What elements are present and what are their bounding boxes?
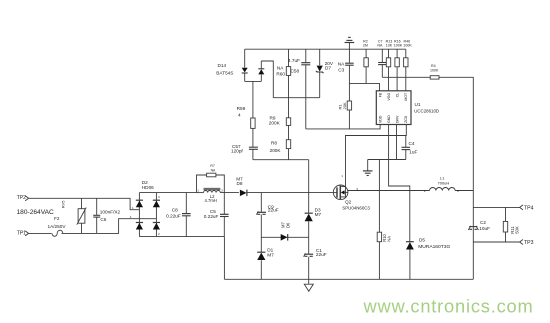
top supply bus — [245, 48, 406, 50]
svg-text:FB: FB — [379, 92, 383, 97]
bridge diode bottom-left — [136, 223, 143, 230]
svg-text:120pf: 120pf — [231, 148, 243, 153]
svg-text:R8: R8 — [271, 141, 277, 146]
resistor R13 — [386, 49, 390, 91]
capacitor C8 — [182, 193, 191, 237]
svg-text:100K: 100K — [394, 43, 403, 47]
bridge diode bottom-right — [153, 223, 160, 230]
svg-text:SPU04N60C3: SPU04N60C3 — [342, 205, 370, 210]
resistor R2 — [364, 49, 368, 83]
svg-text:100K: 100K — [403, 43, 412, 47]
zener D7 — [316, 49, 324, 97]
terminal TP1 — [25, 231, 28, 236]
wire OVP rail to right edge — [382, 76, 430, 78]
wire center tap down to R59 — [252, 81, 254, 118]
svg-text:2M: 2M — [363, 43, 368, 47]
svg-text:100K: 100K — [430, 68, 439, 72]
svg-text:RV5: RV5 — [61, 200, 66, 208]
svg-text:VDD: VDD — [379, 115, 383, 123]
diode D6 — [281, 234, 288, 241]
svg-text:CL: CL — [395, 93, 399, 98]
svg-text:D6: D6 — [285, 222, 290, 228]
mid ground rail — [368, 159, 406, 161]
dual diode D14 BAT54S: left leg — [244, 49, 246, 67]
resistor R11 — [503, 207, 507, 242]
terminal TP2 — [25, 196, 28, 201]
svg-text:GND: GND — [387, 115, 391, 123]
wire L2 left lead — [197, 192, 204, 194]
svg-text:www.cntronics.com: www.cntronics.com — [363, 296, 534, 317]
svg-text:3: 3 — [158, 195, 160, 199]
svg-text:C4: C4 — [409, 141, 415, 146]
svg-text:D14: D14 — [218, 63, 227, 68]
svg-text:2: 2 — [424, 189, 426, 193]
resistor R10 — [377, 191, 381, 280]
diode D1 — [257, 252, 265, 260]
capacitor C3 — [345, 49, 354, 83]
varistor RV5 — [77, 198, 86, 233]
resistor R46 — [404, 49, 408, 91]
svg-text:U1: U1 — [415, 102, 421, 107]
bridge rectifier D2 HD06 : left column — [139, 193, 156, 237]
pin GND bottom stub to jog — [389, 125, 410, 243]
node B vertical: D3 C1 branch — [308, 160, 310, 284]
terminal TP3 — [520, 240, 523, 245]
svg-text:1uF: 1uF — [409, 149, 417, 154]
earth ground mid — [363, 160, 373, 176]
power ground symbol below bus — [304, 284, 313, 291]
svg-text:Q2: Q2 — [345, 199, 352, 204]
svg-text:180-264VAC: 180-264VAC — [17, 209, 55, 216]
wire R4 to right vertical — [439, 77, 473, 279]
resistor R60 chain — [286, 49, 290, 97]
transistor Q2 SPU04N60C3 — [333, 185, 348, 200]
wire FB horizontal to pin1 top — [349, 83, 379, 90]
diode D8 — [240, 190, 247, 197]
svg-text:C8: C8 — [172, 207, 178, 212]
svg-text:D8: D8 — [237, 181, 243, 186]
pin DRV bottom stub to mid ground rail — [396, 125, 398, 160]
svg-text:700uH: 700uH — [438, 180, 450, 185]
mid rail horizontal — [273, 97, 319, 99]
wire bottom ground bus — [224, 278, 473, 280]
wire L1 to right vertical — [455, 190, 473, 192]
capacitor C5 — [220, 193, 229, 237]
resistor R9 — [286, 98, 290, 140]
resistor R4 — [430, 76, 439, 79]
svg-text:TP3: TP3 — [524, 240, 534, 246]
wire Q2 source to L1 — [348, 190, 430, 192]
capacitor C7 — [378, 49, 386, 77]
capacitor C4 — [402, 136, 411, 160]
svg-text:ZCD: ZCD — [404, 115, 408, 123]
svg-text:C6: C6 — [100, 217, 106, 222]
capacitor C6 — [93, 198, 100, 233]
wire TP2 line — [29, 198, 140, 209]
svg-text:R59: R59 — [237, 106, 246, 111]
bridge diode top-right — [153, 200, 160, 207]
svg-text:TP1: TP1 — [17, 230, 26, 236]
svg-text:UCC28610D: UCC28610D — [414, 108, 439, 113]
svg-text:10K: 10K — [386, 43, 393, 47]
svg-text:C3: C3 — [338, 68, 344, 73]
capacitor C1 — [304, 253, 314, 256]
svg-text:200K: 200K — [270, 148, 282, 153]
wire L2 right lead to D8 — [220, 192, 239, 194]
svg-text:10uF: 10uF — [479, 226, 490, 231]
svg-text:20K: 20K — [342, 102, 347, 109]
svg-text:C58: C58 — [291, 68, 300, 73]
op-amp U1 UCC28610D body — [376, 91, 411, 125]
svg-text:TP4: TP4 — [524, 205, 534, 211]
svg-text:1A/250V: 1A/250V — [48, 224, 67, 229]
svg-text:100nF/X2: 100nF/X2 — [100, 209, 121, 214]
resistor R59 — [251, 118, 255, 147]
svg-text:2: 2 — [457, 189, 459, 193]
capacitor C2 — [468, 226, 478, 230]
svg-text:50K: 50K — [515, 226, 520, 234]
svg-text:22uF: 22uF — [316, 252, 327, 257]
diode D14 element b — [258, 61, 264, 81]
svg-text:C5: C5 — [210, 209, 216, 214]
wire feedback horizontal to node B — [253, 159, 309, 161]
svg-text:F2: F2 — [54, 216, 60, 221]
svg-text:NA: NA — [211, 169, 216, 173]
svg-text:22uF: 22uF — [268, 208, 279, 213]
svg-text:NA: NA — [387, 236, 392, 242]
svg-text:DRV: DRV — [395, 115, 399, 123]
fuse F2 — [52, 230, 63, 236]
wire bridge top rail to C8 junction and L2 — [139, 192, 196, 194]
wire D14 b-top hook to mid rail — [261, 61, 273, 98]
wire D14 common bottom — [245, 80, 262, 82]
node A vertical: C9 D1 branch — [260, 193, 262, 280]
resistor R7 parallel with L2 — [197, 173, 225, 192]
svg-text:D5: D5 — [419, 237, 425, 242]
wire TP1 line left of fuse — [29, 232, 52, 234]
svg-text:M7: M7 — [267, 252, 274, 257]
svg-text:TP2: TP2 — [17, 195, 26, 201]
svg-text:2: 2 — [221, 189, 223, 193]
wire left bottom corner down to ground bus — [223, 237, 225, 280]
resistor R16 — [395, 49, 399, 91]
svg-text:1: 1 — [341, 174, 343, 178]
svg-text:D7: D7 — [325, 66, 331, 71]
wire bridge bottom rail — [139, 236, 224, 238]
svg-text:M7: M7 — [315, 212, 322, 217]
svg-text:4: 4 — [238, 112, 241, 117]
earth ground top (inverted) — [345, 37, 355, 49]
pin VDD bottom stub and rail to C58 line — [306, 125, 380, 129]
svg-text:4.7mH: 4.7mH — [205, 198, 217, 203]
svg-text:MURA160T3G: MURA160T3G — [418, 244, 450, 250]
svg-text:4.7uF: 4.7uF — [288, 58, 300, 63]
svg-text:2: 2 — [158, 232, 160, 236]
diode D5 MURA160T3G — [406, 242, 414, 280]
capacitor C57 — [249, 147, 258, 160]
svg-text:R60: R60 — [276, 71, 285, 76]
wire D6 branch horizontal — [261, 236, 308, 238]
diode D14 element a — [242, 68, 248, 82]
svg-text:NA: NA — [338, 61, 345, 66]
svg-text:HD06: HD06 — [142, 185, 154, 190]
pin ZCD bottom stub and drive line to Q2 — [346, 125, 407, 188]
bridge diode top-left — [136, 200, 143, 207]
svg-text:MOT: MOT — [404, 92, 408, 101]
capacitor C58 — [301, 49, 310, 129]
svg-text:200K: 200K — [269, 120, 281, 125]
svg-text:1: 1 — [197, 189, 199, 193]
svg-text:NA: NA — [377, 43, 383, 47]
svg-text:VGG: VGG — [387, 93, 391, 101]
wire TP3 output line — [473, 241, 519, 243]
wire D8 to Q2 gate — [247, 192, 333, 194]
svg-text:0.22uF: 0.22uF — [166, 213, 181, 218]
inductor L1 700uH — [430, 188, 456, 191]
wire ground rail drop to source line — [378, 160, 380, 191]
svg-text:C2: C2 — [480, 220, 486, 225]
svg-text:NA: NA — [277, 66, 284, 71]
wire TP4 output line — [473, 206, 519, 208]
svg-text:BAT54S: BAT54S — [216, 70, 233, 75]
wire TP1 line right of fuse — [62, 219, 157, 234]
terminal TP4 — [520, 205, 523, 210]
capacitor C9 — [256, 211, 266, 214]
resistor R8 — [286, 140, 290, 160]
inductor L2 with core — [204, 188, 221, 192]
diode D3 — [305, 213, 313, 221]
resistor R1 — [347, 83, 351, 128]
svg-text:0.22uF: 0.22uF — [204, 214, 219, 219]
